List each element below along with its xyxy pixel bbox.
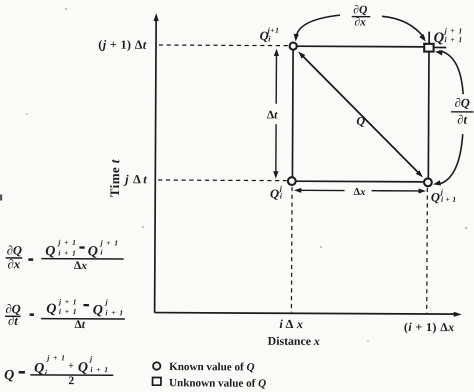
svg-text:Q: Q [78, 361, 88, 376]
svg-text:Q: Q [270, 187, 279, 201]
svg-text:Q: Q [93, 303, 103, 318]
svg-text:Unknown value of Q: Unknown value of Q [169, 377, 266, 390]
svg-text:i + 1: i + 1 [90, 365, 109, 374]
svg-text:i + 1: i + 1 [445, 35, 464, 44]
svg-text:j: j [89, 354, 93, 363]
svg-text:j + 1: j + 1 [57, 238, 77, 247]
svg-text:Q: Q [34, 361, 44, 376]
svg-text:Δ: Δ [133, 172, 141, 186]
svg-text:j + 1: j + 1 [58, 297, 78, 306]
svg-text:Q: Q [4, 368, 14, 383]
svg-text:(i + 1) Δx: (i + 1) Δx [404, 320, 455, 334]
svg-text:i: i [45, 368, 48, 377]
svg-text:(j + 1) Δt: (j + 1) Δt [98, 37, 146, 51]
svg-text:Δx: Δx [74, 259, 87, 272]
svg-text:Q: Q [356, 114, 365, 128]
svg-text:∂x: ∂x [7, 257, 20, 271]
svg-text:Time t: Time t [107, 159, 122, 197]
svg-text:Known value of Q: Known value of Q [169, 361, 254, 373]
svg-text:i: i [100, 248, 103, 257]
svg-text:∂t: ∂t [8, 314, 18, 328]
svg-text:j + 1: j + 1 [99, 238, 119, 247]
svg-text:Q: Q [45, 244, 55, 259]
svg-text:+: + [68, 361, 74, 372]
svg-text:j + 1: j + 1 [46, 353, 66, 362]
svg-text:j + 1: j + 1 [444, 26, 464, 35]
svg-text:i + 1: i + 1 [105, 308, 124, 317]
svg-text:x: x [296, 317, 303, 331]
svg-text:∂x: ∂x [354, 16, 366, 28]
svg-text:i: i [280, 191, 283, 200]
svg-text:Q: Q [434, 30, 445, 46]
svg-text:i + 1: i + 1 [58, 248, 77, 257]
svg-text:i + 1: i + 1 [59, 307, 78, 316]
svg-text:j: j [104, 298, 108, 307]
svg-text:Q: Q [46, 302, 56, 317]
svg-text:∂Q: ∂Q [455, 96, 470, 110]
svg-text:∂t: ∂t [457, 113, 467, 127]
svg-text:Δt: Δt [75, 318, 86, 331]
svg-text:Δ: Δ [286, 317, 294, 331]
svg-text:Q: Q [88, 244, 98, 259]
svg-text:Δx: Δx [354, 187, 366, 198]
svg-text:2: 2 [68, 374, 74, 387]
svg-text:∂Q: ∂Q [7, 243, 22, 257]
svg-text:Q: Q [431, 190, 440, 204]
svg-text:i + 1: i + 1 [441, 195, 456, 204]
svg-text:i: i [268, 34, 271, 43]
svg-text:Distance x: Distance x [268, 334, 320, 348]
svg-text:Δt: Δt [267, 109, 278, 121]
svg-text:∂Q: ∂Q [353, 4, 367, 16]
